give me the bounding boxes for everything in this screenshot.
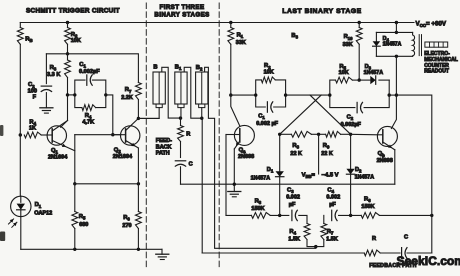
- wire B top lead: [162, 67, 181, 118]
- node box left: [73, 93, 76, 96]
- wire R3b to D1b node: [270, 214, 289, 216]
- wire ground bus last stage: [181, 183, 395, 185]
- wire VBB stub: [318, 134, 320, 174]
- node D4 box bottom: [395, 55, 398, 58]
- capacitor C1 0.002uF: [86, 75, 88, 85]
- svg-text:0.002 µF: 0.002 µF: [256, 121, 278, 127]
- capacitor C bottom feedback: [401, 248, 403, 259]
- wire Q1 base lead: [41, 134, 52, 136]
- svg-text:R3: R3: [50, 65, 57, 72]
- transistor Qb 2N698: [377, 126, 397, 146]
- wire base bias row: [280, 133, 292, 135]
- electromechanical counter readout icon: [425, 42, 448, 47]
- resistor R4 1K: [24, 132, 41, 138]
- svg-text:10K: 10K: [339, 70, 349, 76]
- svg-text:FIRST THREE: FIRST THREE: [160, 4, 205, 11]
- resistor R3b 150K: [251, 213, 270, 219]
- svg-text:OAP12: OAP12: [34, 211, 52, 217]
- svg-text:33K: 33K: [343, 42, 353, 48]
- resistor R2b 10K: [261, 77, 275, 83]
- svg-text:LAST BINARY STAGE: LAST BINARY STAGE: [282, 8, 361, 15]
- node box right: [104, 93, 107, 96]
- wire cross-coupling top: [68, 54, 139, 83]
- svg-text:R5: R5: [79, 214, 86, 221]
- svg-text:R: R: [186, 131, 190, 137]
- node R1-collector junction: [229, 93, 232, 96]
- wire photodiode to ground rail: [20, 217, 22, 250]
- wire R to C bottom: [380, 252, 400, 254]
- resistor R3 3.3K: [67, 54, 69, 60]
- svg-text:C1: C1: [258, 114, 265, 121]
- svg-text:680: 680: [79, 222, 88, 228]
- wire rail to D4 box: [395, 23, 397, 33]
- svg-text:1.5K: 1.5K: [326, 236, 338, 242]
- node Qb collector junction: [395, 93, 398, 96]
- resistor R1 33K: [230, 23, 232, 28]
- svg-text:R6: R6: [123, 215, 130, 222]
- svg-text:BINARY STAGES: BINARY STAGES: [154, 12, 209, 19]
- svg-text:B1: B1: [175, 65, 182, 72]
- svg-text:1.5K: 1.5K: [288, 236, 300, 242]
- wire R9 to Qb base: [341, 133, 351, 135]
- svg-text:READOUT: READOUT: [424, 69, 449, 75]
- wire B2 node to bottom feedback: [201, 118, 203, 253]
- svg-text:−4.5 V: −4.5 V: [322, 172, 339, 178]
- node Qa emitter-ground bus: [233, 183, 236, 186]
- wire Q1 emitter lead: [52, 141, 75, 151]
- wire emitter tie: [75, 183, 139, 185]
- node rail-R1: [229, 21, 232, 24]
- svg-text:0.002: 0.002: [326, 195, 340, 201]
- svg-text:2N698: 2N698: [238, 154, 254, 160]
- transistor Qa 2N698: [234, 125, 254, 145]
- svg-text:150K: 150K: [251, 206, 264, 212]
- svg-text:2N1694: 2N1694: [48, 154, 68, 160]
- resistor R6 270: [137, 148, 139, 212]
- resistor R9 22K: [326, 131, 341, 137]
- node Q2 collector junction: [137, 117, 140, 120]
- scan artifact left edge 1: [0, 125, 3, 136]
- transistor Q1 2N1694: [47, 126, 66, 145]
- svg-text:Qb: Qb: [378, 151, 386, 158]
- svg-text:2.2K: 2.2K: [121, 95, 133, 101]
- node D4 box top: [395, 31, 398, 34]
- node boxR left: [328, 93, 331, 96]
- svg-text:33K: 33K: [236, 40, 246, 46]
- svg-text:1N457A: 1N457A: [383, 42, 402, 48]
- resistor R feedback: [180, 118, 182, 125]
- wire Qa collector: [231, 95, 240, 126]
- wire B1 bottom lead: [180, 108, 182, 119]
- wire Q2 base lead: [113, 134, 126, 136]
- wire C to output line: [407, 252, 432, 254]
- wire Q2 emitter lead: [126, 141, 139, 149]
- binary stage block B: [153, 72, 165, 104]
- svg-text:B2: B2: [196, 65, 203, 72]
- wire output branch: [396, 95, 431, 253]
- resistor R2 10K: [67, 23, 69, 28]
- resistor RB: [19, 23, 21, 28]
- svg-text:1N457A: 1N457A: [364, 70, 384, 76]
- svg-text:10K: 10K: [71, 38, 81, 44]
- wire Qa base vertical: [225, 135, 227, 216]
- wire C4 to D2b node: [339, 214, 362, 216]
- svg-text:1N457A: 1N457A: [251, 176, 271, 182]
- svg-text:F: F: [33, 95, 37, 101]
- node R3-coupling junction: [66, 93, 69, 96]
- svg-text:R8: R8: [292, 143, 299, 150]
- svg-text:SCHMITT TRIGGER CIRCUIT: SCHMITT TRIGGER CIRCUIT: [26, 8, 120, 15]
- svg-text:3.3 K: 3.3 K: [47, 72, 60, 78]
- node rail-R10: [358, 21, 361, 24]
- svg-text:B: B: [153, 64, 157, 70]
- svg-text:1K: 1K: [29, 125, 36, 131]
- diode D4 1N457A: [375, 32, 377, 41]
- svg-text:µF: µF: [289, 202, 296, 208]
- svg-text:µF: µF: [329, 202, 336, 208]
- node D1b top: [278, 133, 281, 136]
- node trigger input: [314, 245, 317, 248]
- wire Qa emitter lead: [234, 141, 240, 149]
- separator dashed line 1: [145, 3, 147, 268]
- svg-text:R7: R7: [327, 229, 334, 236]
- wire boxL right to crossing: [286, 94, 330, 96]
- wire Q2 collector lead: [126, 118, 139, 130]
- ground below Qa: [228, 191, 241, 193]
- svg-text:PATH: PATH: [156, 151, 170, 157]
- resistor R6b 150K: [361, 213, 379, 219]
- svg-text:C: C: [404, 234, 408, 240]
- node emitters tie left: [73, 182, 76, 185]
- svg-text:2N698: 2N698: [377, 158, 393, 164]
- svg-text:2N1694: 2N1694: [113, 154, 133, 160]
- svg-text:R3: R3: [255, 199, 262, 206]
- diode D1b 1N457A: [279, 134, 281, 171]
- svg-text:D2: D2: [355, 167, 362, 174]
- wire B bottom lead: [138, 108, 159, 119]
- resistor R5b 10K: [336, 77, 353, 83]
- binary stage block B1: [175, 72, 187, 104]
- wire D4 box to collector node: [395, 56, 397, 95]
- node Q2 base junction: [111, 133, 114, 136]
- wire Vcc top rail: [20, 22, 414, 24]
- svg-text:270: 270: [122, 223, 131, 229]
- wire B1 top lead: [184, 67, 202, 118]
- separator dashed line 2: [218, 3, 220, 268]
- node R10-boxR top: [358, 78, 361, 81]
- svg-text:RB: RB: [25, 36, 32, 43]
- resistor R4a 4.7K: [82, 105, 96, 111]
- svg-text:D1: D1: [35, 202, 42, 209]
- svg-text:R1: R1: [237, 33, 244, 40]
- node B1 bottom junction: [179, 116, 182, 119]
- wire emitter branch vertical: [74, 135, 76, 184]
- svg-text:0.002µF: 0.002µF: [341, 122, 362, 128]
- resistor R bottom feedback: [364, 250, 380, 256]
- node R2-R3-C2 junction: [66, 52, 69, 55]
- svg-text:R10: R10: [344, 34, 354, 41]
- svg-text:R4: R4: [289, 229, 296, 236]
- wire RB line to photodiode: [19, 134, 21, 196]
- diode D3 1N457A: [370, 76, 375, 84]
- svg-text:C3: C3: [287, 187, 294, 194]
- ground below C2: [40, 107, 53, 109]
- svg-text:B3: B3: [291, 33, 298, 40]
- wire Qb collector: [391, 95, 396, 128]
- svg-text:BACK: BACK: [156, 144, 172, 150]
- svg-text:FEED-: FEED-: [156, 138, 172, 144]
- node boxR right: [388, 93, 391, 96]
- wire B2 top lead: [205, 67, 316, 248]
- svg-text:D1: D1: [267, 167, 274, 174]
- svg-text:VBB=: VBB=: [302, 172, 316, 178]
- wire Qb emitter lead: [383, 142, 395, 150]
- coupling box R5/D3 frame: [330, 80, 336, 95]
- svg-text:100: 100: [28, 88, 37, 94]
- svg-text:C1: C1: [79, 62, 86, 69]
- svg-text:1N457A: 1N457A: [355, 174, 375, 180]
- node boxL left: [254, 93, 257, 96]
- node D1b bottom: [278, 214, 281, 217]
- wire bottom feedback: [202, 252, 364, 254]
- resistor R5 680: [74, 184, 76, 212]
- svg-text:0.002µF: 0.002µF: [79, 69, 100, 75]
- wire cross diagonal B: [310, 95, 351, 134]
- wire C3 to R4b: [299, 215, 307, 223]
- svg-text:R9: R9: [323, 143, 330, 150]
- wire R1 node to boxL: [231, 94, 256, 96]
- transistor Q2 2N1694: [121, 126, 140, 145]
- resistor R7b 1.5K: [323, 215, 325, 223]
- wire R3 node to coupling box: [68, 94, 75, 96]
- photodiode D1 OAP12: [11, 196, 31, 216]
- svg-text:C2: C2: [347, 115, 354, 122]
- svg-text:10K: 10K: [264, 69, 274, 75]
- node R6-rail: [137, 248, 140, 251]
- wire Q1 collector: [67, 95, 69, 121]
- wire cross diagonal A: [280, 95, 322, 134]
- wire R3b row: [226, 214, 251, 216]
- svg-text:SeekIC.com: SeekIC.com: [397, 254, 460, 268]
- wire B2 bottom lead: [201, 108, 203, 119]
- wire Q2 base tie: [75, 134, 121, 136]
- node B2 bottom junction: [200, 117, 203, 120]
- node D2b bottom: [349, 214, 352, 217]
- diode D2b 1N457A: [350, 134, 352, 169]
- node rail-R2 junction: [66, 21, 69, 24]
- wire Qa base lead: [226, 134, 240, 136]
- capacitor C3 0.002uF: [291, 210, 293, 220]
- wire junction to C2: [46, 53, 67, 55]
- svg-text:150K: 150K: [361, 204, 374, 210]
- node boxL right: [284, 93, 287, 96]
- capacitor C4 0.002uF: [331, 210, 333, 220]
- svg-text:R6: R6: [364, 196, 371, 203]
- scan artifact left edge 2: [0, 232, 5, 242]
- node rail-D4: [395, 21, 398, 24]
- wire Qb base lead: [377, 134, 382, 136]
- wire R8 to R9: [311, 133, 325, 135]
- svg-text:R4: R4: [85, 113, 92, 120]
- counter coil: [413, 32, 415, 56]
- wire Q1 collector lead: [52, 121, 67, 132]
- svg-text:C4: C4: [327, 187, 334, 194]
- svg-text:22 K: 22 K: [290, 151, 302, 157]
- svg-text:R: R: [372, 236, 376, 242]
- capacitor C2 100pF: [45, 54, 47, 84]
- node output line junction: [430, 214, 433, 217]
- node emitters tie right: [137, 182, 140, 185]
- binary stage block B2: [196, 72, 208, 104]
- svg-text:0.002: 0.002: [286, 195, 300, 201]
- wire box right to Q2 base line: [106, 95, 113, 135]
- wire boxR right to D4 line: [389, 94, 396, 96]
- node R5-rail: [73, 248, 76, 251]
- resistor R10 33K: [358, 23, 360, 28]
- wire R6b to output line: [379, 214, 431, 216]
- capacitor C feedback: [175, 160, 185, 162]
- coupling box R2/C1 frame: [256, 80, 262, 95]
- node VBB junction: [317, 133, 320, 136]
- node D2b top: [349, 133, 352, 136]
- ground at rail end: [161, 249, 163, 254]
- capacitor C2b 0.002uF: [356, 102, 358, 112]
- svg-text:C: C: [189, 162, 193, 168]
- resistor R4b 1.5K: [304, 224, 310, 240]
- svg-text:R7: R7: [125, 87, 132, 94]
- coupling box C1/R4a frame: [75, 80, 85, 95]
- svg-text:22 K: 22 K: [321, 151, 333, 157]
- wire bottom ground rail: [21, 248, 162, 250]
- capacitor C1b 0.002uF: [266, 102, 268, 112]
- relay coil box frame: [376, 31, 412, 33]
- wire Schmitt output: [138, 117, 159, 119]
- resistor R7 2.2K: [136, 83, 142, 100]
- node R4-RB junction: [19, 133, 22, 136]
- resistor R8 22K: [291, 131, 311, 137]
- svg-text:4,7K: 4,7K: [82, 120, 94, 126]
